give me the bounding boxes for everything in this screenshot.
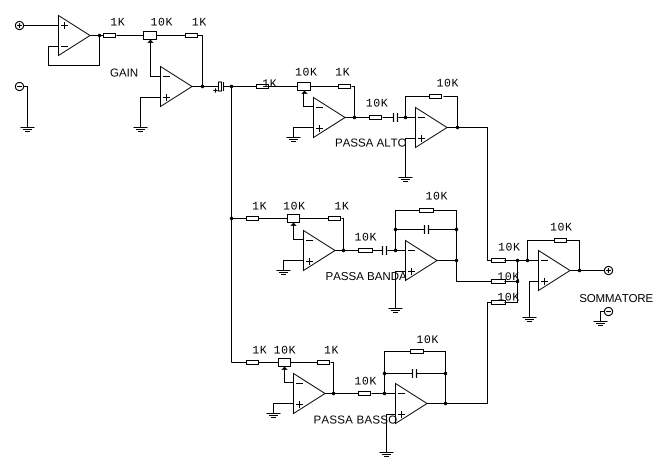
wire R2 to U2 output [198,36,203,87]
label R10 value 10K [426,192,447,200]
capacitor C5 feedback [413,369,417,378]
ground U7 +in [267,414,281,418]
output + terminal [604,266,612,274]
wire P2 to R4 [311,86,339,88]
resistor R7 1K [247,217,259,221]
wire trunk to R3 [232,86,257,88]
label R3 value 1K [263,79,277,87]
wire U3 output [346,117,355,119]
resistor R2 1K [186,34,198,38]
wire trunk to R11 [232,362,247,364]
node U8 -in junction [383,392,386,395]
node U3 output junction [353,116,356,119]
wire P1 to R2 [157,35,186,37]
wire R12 to U7 output [331,363,334,394]
node U6 output junction [455,259,458,262]
node U1 output junction [98,34,101,37]
wire P3 to R8 [300,218,329,220]
wire U6 +in to ground [396,272,406,309]
label R7 value 1K [253,202,267,210]
node U4 output junction [456,126,459,129]
node summing junction 2 [516,280,519,283]
node summing junction 1 [516,259,519,262]
wire U7 out to R13 [334,393,359,395]
node U9 output junction [578,269,581,272]
ground U2 +in [134,128,148,132]
resistor R9 10K [359,249,373,253]
op-amp U7 low-pass stage 1 [294,374,326,414]
label R11 value 1K [253,346,267,354]
resistor R4 1K [339,85,351,89]
label R4 value 1K [336,68,350,76]
wire summing node row [505,260,539,262]
node trunk top junction [230,85,233,88]
ground input reference [21,128,35,132]
wire U6 output to summer [457,261,492,282]
wire R4 to U3 output [352,87,355,118]
wire C4 left lead [396,229,425,231]
wire input - terminal to ground [24,87,28,128]
op-amp U4 high-pass stage 2 [416,108,448,148]
potentiometer P3 10K [288,215,300,226]
ground U8 +in [380,453,394,457]
wire R8 to U5 output [342,219,344,251]
wire P3 wiper to U5 -in [294,225,304,240]
resistor R15 10K summing high [492,259,506,263]
label P1 value 10K [151,18,172,26]
ground U5 +in [277,271,291,275]
wire R11 to P4 [259,362,279,364]
label R16 value 10K [498,272,519,280]
wire input to U1 +in [24,25,59,27]
op-amp U5 band-pass stage 1 [304,231,336,271]
node U6 feedback cap tap left [394,228,397,231]
wire C1 to trunk node [224,86,232,88]
wire U8 output to summer [446,303,492,404]
label R6 value 10K [437,79,458,87]
wire U9 +in to ground [530,282,539,318]
label R13 value 10K [355,377,376,385]
wire R9 to C3 [373,250,383,252]
wire U7 output [326,393,334,395]
wire P4 wiper to U7 -in [285,369,294,383]
wire P4 to R12 [291,362,318,364]
resistor R12 1K [318,361,330,365]
node trunk band-pass tap [230,217,233,220]
node U8 output junction [444,402,447,405]
label R8 value 1K [335,202,349,210]
wire U8 feedback left vertical [385,352,411,394]
wire U2 output to C1 [193,86,219,88]
resistor R1 1K [104,34,116,38]
potentiometer P2 10K [298,83,311,94]
wire U2 +in to ground [141,98,161,128]
label R12 value 1K [325,346,339,354]
wire R16 to summing node [505,281,518,283]
label P2 value 10K [296,68,317,76]
wire R7 to P3 [259,218,288,220]
wire trunk vertical bus [231,87,233,363]
label R17 value 10K [498,293,519,301]
wire R18 to U9 output [567,241,580,271]
node U8 feedback cap tap right [444,372,447,375]
label PASSA BANDA [326,272,406,280]
input - terminal [15,82,23,90]
capacitor C3 [383,246,387,255]
wire U8 +in to ground [387,415,396,453]
resistor R3 1K [257,85,269,89]
label SOMMATORE [580,294,653,302]
node U6 -in junction [394,249,397,252]
capacitor C1 polarized [213,82,223,93]
wire U6 output [438,260,457,262]
potentiometer P4 10K [279,359,291,370]
wire U5 +in to ground [284,261,304,271]
capacitor C4 feedback [425,225,429,234]
wire R14 to U8 output vertical [424,352,446,404]
op-amp U6 band-pass stage 2 [406,241,438,281]
node U8 feedback cap tap left [383,372,386,375]
op-amp U8 low-pass stage 2 [396,384,428,424]
resistor R18 10K feedback [555,239,567,243]
op-amp U9 summer [539,251,571,291]
output - terminal [604,307,612,315]
wire C5 right lead [417,373,446,375]
wire C3 to U6 -in [388,250,406,252]
wire R5 to C2 [383,117,394,119]
wire U3 +in to ground [294,128,314,138]
label R15 value 10K [499,243,520,251]
wire U9 feedback left vertical [528,241,555,261]
wire R13 to U8 -in [372,393,396,395]
wire U4 +in to ground [406,139,416,178]
resistor R8 1K [329,217,341,221]
ground U9 +in [523,318,537,322]
wire R17 to summing node vertical [505,261,518,303]
resistor R17 10K summing low [492,301,506,305]
wire U4 feedback left [406,97,430,118]
label P3 value 10K [284,202,305,210]
label R14 value 10K [417,335,438,343]
op-amp U2 gain stage [161,67,193,107]
label P4 value 10K [274,346,295,354]
wire U5 output [336,250,344,252]
label PASSA BASSO [314,415,396,423]
wire P2 wiper to U3 -in [304,93,314,107]
label R1 value 1K [111,18,125,26]
ground U3 +in [287,138,301,142]
wire U1 feedback loop [49,36,100,66]
resistor R6 10K feedback [430,95,442,99]
ground U4 +in [399,178,413,182]
input + terminal [15,21,23,29]
resistor R16 10K summing band [492,280,506,284]
wire P1 wiper to U2 -in [151,42,161,77]
wire C4 right lead [429,229,457,231]
label R5 value 10K [367,99,388,107]
node U2 output junction [201,85,204,88]
ground output reference [594,322,608,326]
wire trunk to R7 [232,218,247,220]
label R9 value 10K [355,233,376,241]
label GAIN [111,68,138,76]
wire U6 feedback left vertical [396,211,420,251]
resistor R14 10K feedback [411,350,424,354]
resistor R13 10K [359,392,371,396]
ground U6 +in [389,309,403,313]
wire U4 output to summer [447,128,492,261]
wire U3 out to R5 [355,117,370,119]
wire R3 to P2 [269,86,298,88]
label R18 value 10K [551,223,572,231]
op-amp U3 high-pass stage 1 [314,98,346,138]
node U6 feedback cap tap right [455,228,458,231]
resistor R11 1K [247,361,259,365]
wire U1 output [91,35,104,37]
wire U8 output [427,403,446,405]
node summing junction 3 [526,259,529,262]
wire C2 to U4 -in [399,117,416,119]
potentiometer P1 10K [144,32,157,43]
wire U5 out to R9 [344,250,359,252]
node U5 output junction [342,249,345,252]
wire R1 to P1 [117,35,144,37]
op-amp U1 input buffer [59,16,91,56]
label PASSA ALTO [336,138,406,146]
label R2 value 1K [193,18,207,26]
wire U7 +in to ground [274,404,294,414]
resistor R5 10K [370,116,382,120]
wire R10 to U6 output vertical [434,211,457,261]
resistor R10 10K feedback [420,209,434,213]
wire U9 output to terminal [571,270,605,272]
wire R6 to U4 output [444,97,458,128]
capacitor C2 [394,113,398,122]
wire output - terminal to ground [601,312,605,322]
node U4 -in junction [404,116,407,119]
wire C5 left lead [385,373,413,375]
node U7 output junction [332,392,335,395]
